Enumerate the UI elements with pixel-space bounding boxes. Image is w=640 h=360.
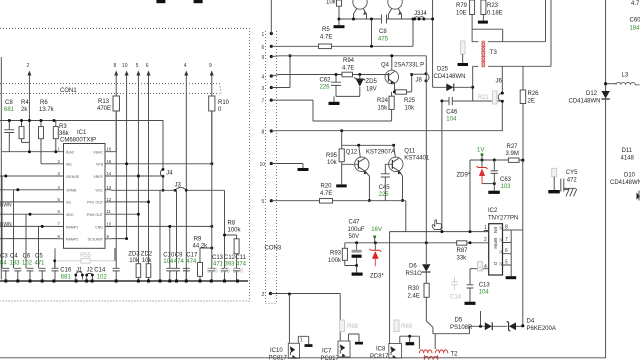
svg-text:10: 10: [122, 63, 128, 69]
svg-text:474: 474: [186, 259, 197, 265]
svg-text:104: 104: [446, 117, 457, 123]
svg-text:R95: R95: [326, 153, 338, 159]
mouse hand cursor overlay: [432, 220, 441, 230]
wire loop: pin8 rail corner: [501, 66, 503, 130]
svg-text:J3J4: J3J4: [414, 11, 427, 17]
svg-text:T2: T2: [451, 352, 459, 358]
svg-text:VDC: VDC: [66, 213, 74, 217]
ghost capacitor C14: [451, 277, 457, 290]
svg-text:471: 471: [35, 261, 46, 267]
wire left edge vertical: [0, 57, 2, 280]
svg-text:14: 14: [107, 171, 112, 176]
svg-text:13.7k: 13.7k: [39, 107, 55, 113]
svg-text:VREF: VREF: [93, 175, 103, 179]
svg-text:2: 2: [262, 292, 265, 298]
svg-text:R23: R23: [487, 3, 499, 9]
svg-text:8: 8: [114, 63, 117, 69]
ghost cap near T3: [461, 41, 466, 54]
svg-text:IC1: IC1: [77, 130, 87, 136]
svg-text:C12: C12: [224, 255, 236, 261]
svg-text:IC8: IC8: [376, 347, 386, 353]
svg-text:R68: R68: [347, 324, 359, 330]
svg-text:R25: R25: [404, 98, 416, 104]
svg-text:5: 5: [136, 63, 139, 69]
svg-text:10k: 10k: [129, 258, 140, 264]
wire zd5/c62 bottom: [334, 96, 360, 101]
svg-text:R24: R24: [377, 98, 389, 104]
svg-text:C17: C17: [186, 252, 198, 258]
svg-text:R10: R10: [218, 100, 230, 106]
svg-text:KST2907A: KST2907A: [366, 150, 395, 156]
svg-text:10k: 10k: [405, 106, 416, 112]
wire rail y231.6 to IC2 pin1: [390, 231, 489, 233]
T3 top leads: [472, 0, 545, 42]
svg-text:C14: C14: [450, 295, 462, 301]
svg-text:225: 225: [379, 192, 390, 198]
svg-text:D4: D4: [527, 319, 535, 325]
svg-text:4.7: 4.7: [631, 1, 640, 7]
svg-text:IAC: IAC: [66, 163, 72, 167]
svg-text:CM6800TXIP: CM6800TXIP: [60, 138, 96, 144]
svg-text:4: 4: [262, 75, 265, 81]
wire pin10 to ground: [271, 163, 303, 165]
svg-text:470E: 470E: [97, 106, 111, 112]
svg-text:681: 681: [4, 107, 15, 113]
svg-text:C45: C45: [379, 185, 391, 191]
svg-text:05: 05: [499, 226, 503, 230]
svg-text:5: 5: [262, 199, 265, 205]
svg-text:R79: R79: [456, 3, 468, 9]
svg-text:R93: R93: [330, 251, 342, 257]
svg-text:TNY277PN: TNY277PN: [488, 216, 518, 222]
chassis ground hatch: [564, 188, 577, 196]
transistor Q10: [388, 0, 402, 9]
svg-text:CD4148WN: CD4148WN: [569, 99, 601, 105]
svg-text:D12: D12: [586, 91, 598, 97]
svg-text:12: 12: [107, 197, 112, 202]
svg-text:J2: J2: [87, 268, 94, 274]
IC8 right pin to ground bar and T2: [400, 336, 420, 349]
bottom long wire: [0, 357, 606, 359]
svg-text:7: 7: [505, 237, 508, 243]
svg-text:50V: 50V: [349, 234, 360, 240]
ground bar under C62: [329, 102, 340, 105]
wire T2 secondary to D5: [435, 326, 469, 333]
svg-text:3.9M: 3.9M: [506, 151, 519, 157]
svg-text:C46: C46: [446, 110, 458, 116]
svg-text:15: 15: [107, 159, 112, 164]
svg-text:D5: D5: [455, 318, 463, 324]
svg-text:05: 05: [499, 238, 503, 242]
wire columns C3-C6: [2, 176, 39, 268]
svg-text:L3: L3: [622, 73, 629, 79]
svg-text:C60: C60: [630, 18, 640, 24]
svg-text:CND: CND: [95, 225, 103, 229]
wire pin7 path: [271, 100, 391, 121]
svg-text:C47: C47: [349, 220, 361, 226]
svg-text:PVM OUT: PVM OUT: [87, 213, 104, 217]
connector CON1 dashed strip: [0, 84, 221, 94]
svg-text:R26: R26: [528, 91, 540, 97]
svg-text:05: 05: [499, 262, 503, 266]
svg-text:IC2: IC2: [488, 208, 498, 214]
svg-text:PFC OUT: PFC OUT: [87, 201, 104, 205]
ghost resistor near IC2: [478, 262, 483, 272]
svg-text:10: 10: [260, 162, 266, 168]
svg-text:D25: D25: [437, 67, 449, 73]
wire corner to J4: [162, 120, 164, 169]
long vertical from top to D25: [432, 0, 434, 87]
svg-text:PC817: PC817: [370, 354, 389, 360]
svg-text:9: 9: [209, 63, 212, 69]
svg-text:10k: 10k: [142, 258, 153, 264]
wire 1V rail y160: [470, 160, 523, 232]
svg-text:Q4: Q4: [381, 63, 390, 69]
svg-text:2.4E: 2.4E: [408, 294, 420, 300]
svg-text:CON3: CON3: [265, 246, 282, 252]
svg-text:R55: R55: [80, 253, 92, 259]
wire left pins of IC1: [0, 176, 57, 239]
svg-text:R87: R87: [457, 248, 469, 254]
dashed connector CON3 box: [266, 31, 277, 303]
svg-text:104: 104: [479, 290, 490, 296]
svg-text:VFB: VFB: [96, 163, 104, 167]
ghost resistor above IC7: [340, 320, 345, 332]
svg-text:475: 475: [378, 37, 389, 43]
svg-text:471: 471: [213, 262, 224, 268]
wire col 160: [159, 190, 161, 279]
svg-text:16V: 16V: [371, 227, 382, 233]
svg-text:R69: R69: [401, 324, 413, 330]
svg-text:104: 104: [163, 259, 174, 265]
svg-text:2k: 2k: [21, 107, 28, 113]
svg-text:36k: 36k: [59, 131, 70, 137]
svg-text:C13: C13: [212, 255, 224, 261]
svg-text:0.18E: 0.18E: [487, 11, 503, 17]
svg-text:C63: C63: [500, 177, 512, 183]
transistor Q9: [353, 0, 367, 9]
svg-text:C3: C3: [0, 254, 8, 260]
svg-text:474: 474: [236, 262, 247, 268]
wire rail y242.8: [345, 242, 484, 244]
emitter node: [393, 90, 396, 93]
ground bar under R23: [478, 21, 488, 24]
svg-text:184: 184: [630, 26, 640, 32]
CON1 pin 6 arrow: [146, 63, 151, 264]
svg-text:05: 05: [499, 250, 503, 254]
svg-text:D10: D10: [624, 173, 636, 179]
svg-text:33k: 33k: [457, 256, 468, 262]
bus junction squares: [4, 280, 239, 283]
svg-text:R8: R8: [228, 221, 236, 227]
wire top edge black bar 2: [194, 0, 203, 3]
svg-text:R94: R94: [343, 58, 355, 64]
wire top rail y120: [0, 120, 163, 122]
wire vertical D12 column: [605, 0, 607, 358]
IC1 pin names: [66, 151, 80, 242]
svg-text:D: D: [493, 262, 498, 265]
svg-text:ZD3: ZD3: [128, 251, 140, 257]
svg-text:C10: C10: [163, 252, 175, 258]
svg-text:C14: C14: [94, 268, 106, 274]
svg-text:DCILIMIT: DCILIMIT: [88, 238, 104, 242]
svg-text:T3: T3: [490, 50, 498, 56]
svg-text:18V: 18V: [366, 87, 377, 93]
svg-text:D11: D11: [622, 148, 633, 154]
svg-text:2E: 2E: [528, 99, 535, 105]
wire x389 drop into IC8: [389, 243, 391, 344]
wire pin1 rail: [2, 151, 57, 153]
dashed frame of PFC block: [0, 29, 250, 302]
CON1 pin 10 arrow: [122, 63, 129, 239]
svg-text:474: 474: [174, 259, 185, 265]
ground bar under IC2 right pins: [506, 276, 517, 279]
svg-text:2: 2: [484, 237, 487, 243]
CON1 pin 2 arrow: [27, 63, 32, 152]
svg-text:6: 6: [146, 63, 149, 69]
IC2 right pins: [503, 230, 512, 276]
svg-text:ZD3*: ZD3*: [370, 274, 384, 280]
svg-text:4148: 4148: [621, 156, 635, 162]
wire CON3 pin2: [271, 294, 341, 342]
svg-text:100uF: 100uF: [348, 227, 365, 233]
svg-text:13: 13: [107, 185, 112, 190]
svg-text:R20: R20: [321, 184, 333, 190]
ground bar under C63: [488, 191, 500, 194]
svg-text:J8: J8: [416, 78, 423, 84]
ground bus: [0, 280, 248, 282]
svg-text:ISENSE: ISENSE: [66, 175, 80, 179]
svg-text:6: 6: [262, 45, 265, 51]
wire collector rail y145.3: [342, 131, 395, 146]
svg-text:1V: 1V: [477, 148, 484, 154]
svg-text:183: 183: [10, 261, 21, 267]
svg-text:RAMP1: RAMP1: [66, 225, 78, 229]
IC2 rotated pin names: [493, 227, 498, 265]
svg-text:RAMP2: RAMP2: [66, 238, 78, 242]
svg-text:681: 681: [61, 274, 72, 280]
svg-text:303: 303: [220, 269, 231, 275]
svg-text:472: 472: [567, 178, 578, 184]
svg-text:CD4148WN: CD4148WN: [610, 180, 640, 186]
svg-text:E06: E06: [207, 269, 218, 275]
svg-text:102: 102: [22, 261, 33, 267]
svg-text:4.7E: 4.7E: [320, 191, 332, 197]
svg-text:SS: SS: [66, 201, 71, 205]
svg-text:16: 16: [107, 147, 112, 152]
svg-text:IC7: IC7: [322, 349, 332, 355]
svg-text:E08: E08: [233, 269, 244, 275]
CON1 pin 9 arrow: [209, 63, 214, 164]
IC1 pin numbers: [58, 147, 112, 239]
svg-text:10k: 10k: [327, 160, 338, 166]
svg-text:VRMB: VRMB: [66, 189, 77, 193]
svg-text:R3: R3: [59, 124, 67, 130]
svg-text:VCC: VCC: [95, 189, 103, 193]
svg-text:IEAC: IEAC: [66, 151, 75, 155]
svg-text:3: 3: [262, 86, 265, 92]
ground bar under R95: [336, 184, 347, 187]
wire pin9 rail y55.8: [271, 55, 426, 58]
svg-text:R4: R4: [21, 100, 29, 106]
svg-text:Q12: Q12: [346, 150, 358, 156]
svg-text:103: 103: [501, 184, 512, 190]
svg-text:8: 8: [505, 225, 508, 231]
wire pin8 to R26 column: [511, 229, 523, 231]
IC1 left pin stubs: [57, 152, 112, 239]
svg-text:C4: C4: [10, 254, 18, 260]
wire y19 rail: [339, 18, 424, 20]
svg-text:7: 7: [262, 99, 265, 105]
svg-text:10E: 10E: [456, 11, 467, 17]
svg-text:10: 10: [107, 222, 112, 227]
svg-text:CON1: CON1: [60, 88, 77, 94]
svg-text:C16: C16: [60, 268, 72, 274]
wire pin3 up: [271, 56, 290, 88]
T3 bottom leads: [473, 0, 551, 101]
svg-text:R06: R06: [477, 266, 489, 272]
ground bar under C47: [352, 273, 363, 276]
svg-text:J6: J6: [496, 79, 503, 85]
wire C46 column down: [441, 101, 443, 232]
svg-text:BP/M: BP/M: [493, 238, 498, 249]
svg-text:102: 102: [97, 274, 108, 280]
svg-text:J4: J4: [166, 171, 173, 177]
wire IAC junction dots: [20, 119, 23, 122]
svg-text:100k: 100k: [328, 258, 342, 264]
svg-text:C5: C5: [35, 254, 43, 260]
svg-text:ZD9*: ZD9*: [457, 173, 471, 179]
svg-text:2: 2: [27, 63, 30, 69]
svg-text:R5: R5: [322, 27, 330, 33]
wire R20 rail drop: [405, 201, 407, 232]
svg-text:5: 5: [505, 260, 508, 266]
svg-text:2SA733L P: 2SA733L P: [394, 63, 424, 69]
svg-text:10k: 10k: [326, 0, 337, 6]
svg-text:C13: C13: [479, 283, 491, 289]
CON1 pin 8 arrow: [114, 63, 119, 76]
svg-text:CY5: CY5: [566, 170, 578, 176]
svg-text:VEAC: VEAC: [93, 151, 103, 155]
IC1 right pin wires: [112, 152, 212, 239]
svg-text:15k: 15k: [378, 106, 389, 112]
svg-text:R27: R27: [507, 144, 519, 150]
svg-text:R6: R6: [40, 100, 48, 106]
wire pin2 rail: [41, 163, 57, 165]
svg-text:ZD5: ZD5: [366, 79, 378, 85]
svg-text:C8: C8: [5, 100, 13, 106]
svg-text:4.7E: 4.7E: [320, 35, 332, 41]
svg-text:100k: 100k: [228, 228, 242, 234]
svg-text:Q11: Q11: [404, 149, 416, 155]
wire top edge black bar 1: [156, 0, 165, 3]
ghost resistor above IC8: [394, 320, 399, 332]
ground bar left of T3: [458, 63, 469, 66]
svg-text:RS1O: RS1O: [406, 271, 423, 277]
svg-text:R13: R13: [98, 99, 110, 105]
svg-text:1: 1: [262, 32, 265, 38]
svg-text:4: 4: [184, 63, 187, 69]
wire pin4 / R94 rail y74.5: [271, 75, 342, 77]
svg-text:C8: C8: [379, 29, 387, 35]
svg-text:8: 8: [262, 130, 265, 136]
svg-text:226: 226: [320, 85, 331, 91]
svg-text:4.7E: 4.7E: [342, 66, 354, 72]
svg-text:R9: R9: [194, 237, 202, 243]
svg-text:EN: EN: [493, 227, 498, 233]
IC2 pin4 wire to C13: [470, 268, 484, 270]
svg-text:CD4148WN: CD4148WN: [434, 74, 466, 80]
svg-text:1: 1: [300, 338, 303, 344]
svg-text:D6: D6: [409, 264, 417, 270]
svg-text:P6KE200A: P6KE200A: [527, 326, 556, 332]
svg-text:84: 84: [0, 261, 7, 267]
svg-text:ZD2: ZD2: [141, 251, 153, 257]
svg-text:393: 393: [225, 262, 236, 268]
svg-text:R21: R21: [478, 95, 490, 101]
CON1 pin 5 arrow: [136, 63, 141, 264]
CON1 pin 4 arrow: [184, 63, 189, 281]
ground bar under C13: [465, 302, 476, 305]
svg-text:11: 11: [107, 209, 112, 214]
svg-text:R30: R30: [408, 286, 420, 292]
svg-text:9: 9: [262, 55, 265, 61]
svg-text:IC10: IC10: [270, 348, 283, 354]
svg-text:C62: C62: [320, 78, 332, 84]
wire pin8 rail y130.7: [271, 130, 503, 132]
svg-text:C6: C6: [23, 254, 31, 260]
switch diagonal to T2: [426, 321, 435, 349]
ground bar under 10k: [334, 25, 345, 28]
svg-text:6: 6: [505, 248, 508, 254]
